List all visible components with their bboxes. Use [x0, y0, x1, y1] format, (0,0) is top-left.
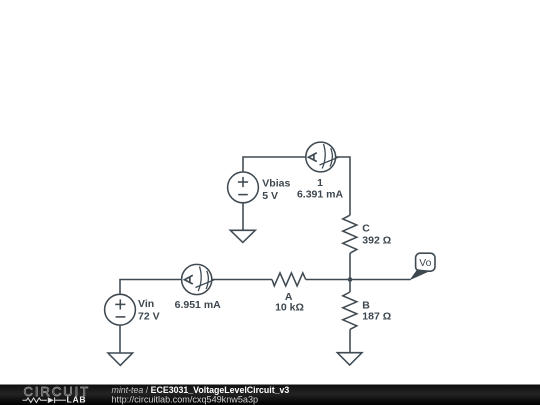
wire resistor B to ground	[349, 329, 351, 352]
resistor A	[272, 273, 306, 286]
svg-text:6.391 mA: 6.391 mA	[297, 188, 344, 200]
svg-text:6.951 mA: 6.951 mA	[175, 299, 222, 311]
ammeter (left)	[182, 264, 215, 294]
wire node to Vo flag	[350, 279, 411, 281]
svg-text:mint-tea / ECE3031_VoltageLeve: mint-tea / ECE3031_VoltageLevelCircuit_v…	[112, 385, 290, 395]
wire node to resistor B	[349, 280, 351, 293]
label resistor C value	[362, 223, 391, 247]
label Vin 72 V	[138, 298, 160, 323]
svg-text:72 V: 72 V	[138, 311, 160, 323]
footer text	[112, 385, 290, 405]
CircuitLab logo	[23, 384, 91, 404]
svg-text:http://circuitlab.com/cxq549kn: http://circuitlab.com/cxq549knw5a3p	[112, 395, 259, 405]
footer bar	[0, 385, 540, 405]
svg-text:392 Ω: 392 Ω	[362, 235, 391, 247]
voltage source Vbias	[228, 172, 259, 203]
wire Vin to left ammeter	[120, 280, 182, 295]
label resistor B value	[362, 300, 391, 323]
ground (Vin)	[108, 353, 133, 365]
label Vbias 5 V	[262, 178, 290, 203]
svg-text:Vbias: Vbias	[262, 178, 290, 190]
wire resistor C to node	[349, 253, 351, 279]
svg-text:C: C	[362, 223, 370, 235]
wire Vin to ground	[119, 326, 121, 354]
resistor B	[343, 292, 357, 329]
svg-text:187 Ω: 187 Ω	[362, 311, 391, 323]
svg-text:Vin: Vin	[138, 298, 154, 310]
svg-text:5 V: 5 V	[262, 190, 278, 202]
ammeter 1	[306, 142, 339, 172]
wire Vbias top to ammeter 1	[243, 157, 306, 172]
svg-text:LAB: LAB	[67, 395, 87, 405]
wire resistor A to node	[306, 279, 350, 281]
resistor C	[343, 215, 357, 253]
voltage source Vin	[105, 294, 136, 325]
node Vo flag	[410, 253, 436, 280]
svg-text:10 kΩ: 10 kΩ	[275, 302, 304, 314]
ground (Vbias)	[230, 230, 255, 242]
svg-text:Vo: Vo	[419, 258, 431, 269]
label ammeter 1 value	[297, 177, 344, 200]
ground (resistor B)	[337, 353, 362, 365]
wire left ammeter to resistor A	[212, 279, 272, 281]
svg-text:1: 1	[317, 177, 323, 189]
wire ammeter 1 to resistor C	[336, 157, 350, 215]
wire Vbias to ground	[242, 203, 244, 231]
junction node	[348, 277, 353, 282]
label resistor A value	[275, 291, 304, 314]
